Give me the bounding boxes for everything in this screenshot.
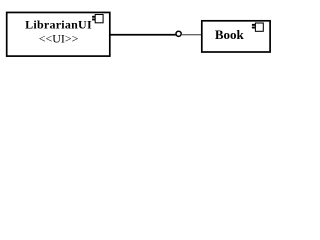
svg-text:Book: Book bbox=[215, 27, 245, 42]
svg-text:LibrarianUI: LibrarianUI bbox=[25, 18, 92, 32]
svg-text:<<UI>>: <<UI>> bbox=[39, 32, 79, 46]
